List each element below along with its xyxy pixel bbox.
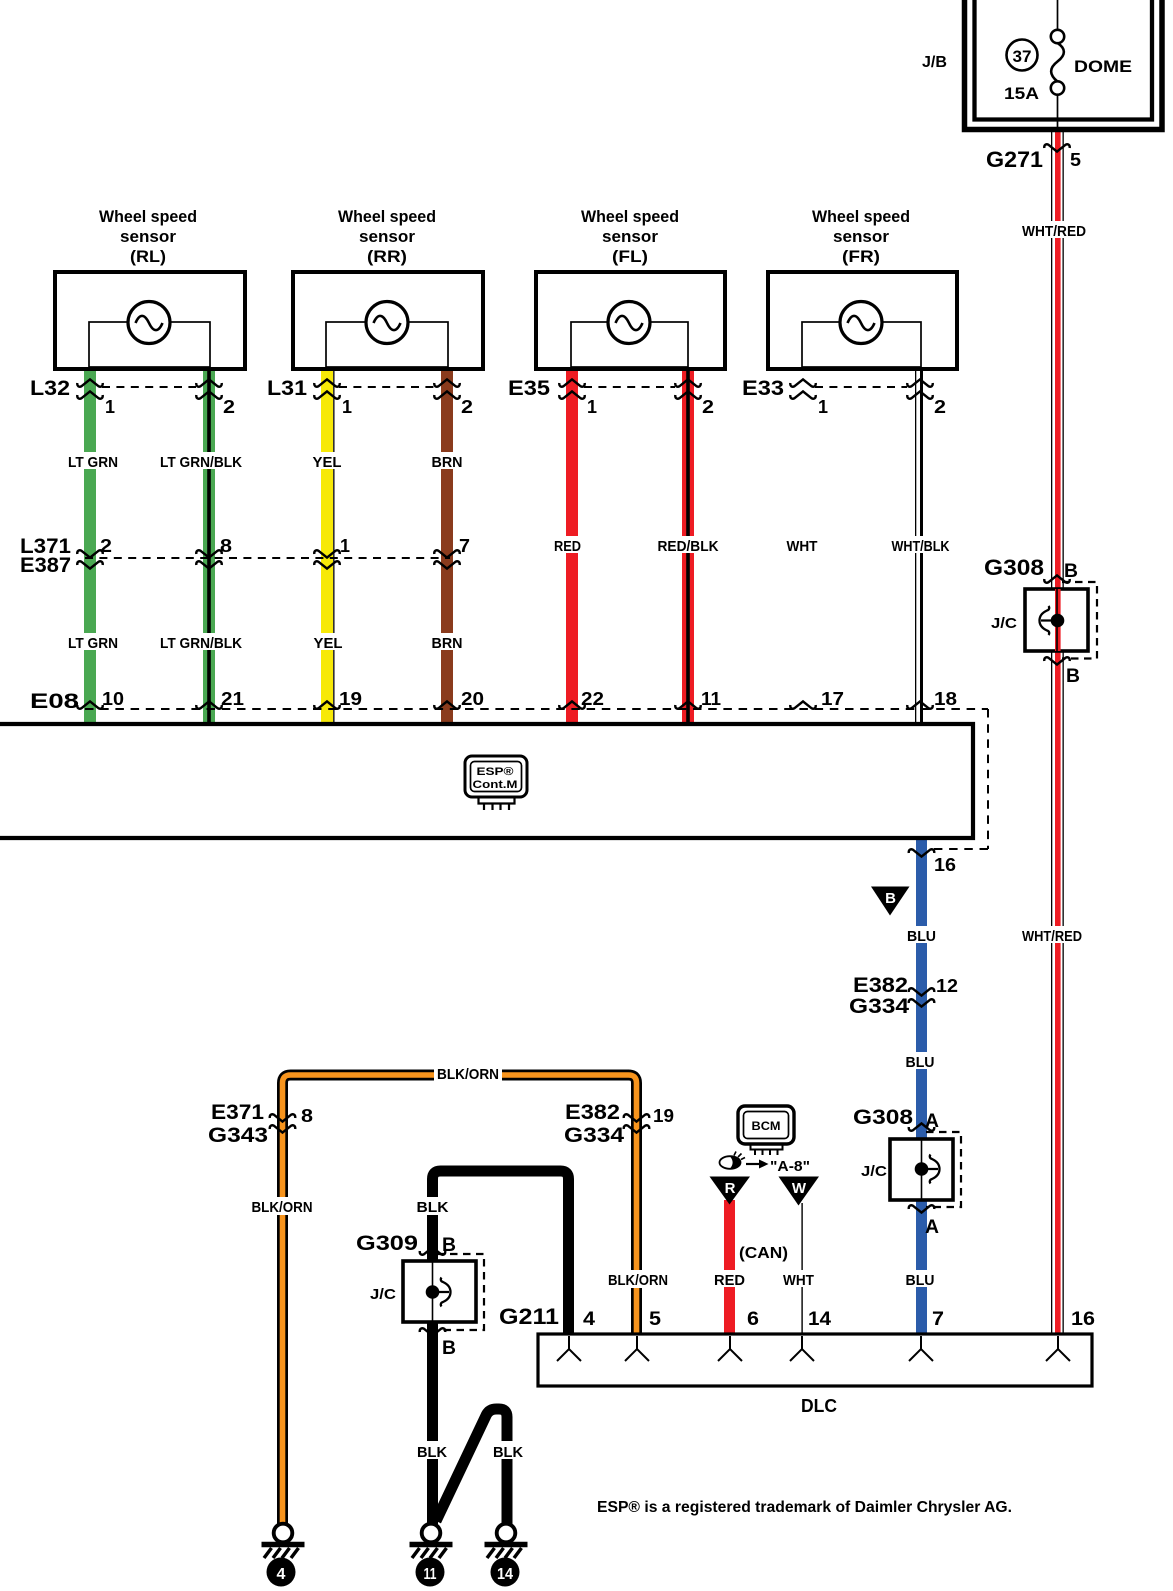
wire label WHT/RED (lower) [1021,926,1087,945]
svg-text:8: 8 [301,1106,313,1126]
wire LT GRN/BLK (RL pin2) [203,368,215,724]
ESP control module box [0,724,973,838]
connector L31 [267,377,473,417]
svg-text:BCM: BCM [752,1119,781,1133]
junction G308 A label [853,1106,939,1132]
svg-text:YEL: YEL [314,635,343,652]
svg-text:Wheel speed: Wheel speed [581,207,679,226]
svg-text:sensor: sensor [602,227,658,246]
ground 14 [485,1524,528,1587]
wire BLK from G309 to grounds and DLC pin4 [433,1171,569,1525]
svg-text:WHT/RED: WHT/RED [1022,223,1086,240]
svg-text:Cont.M: Cont.M [473,779,518,791]
wire label LT GRN/BLK (lower) [158,633,244,652]
svg-text:G334: G334 [564,1124,624,1147]
wire label LT GRN/BLK (upper) [158,452,244,471]
svg-text:R: R [725,1180,736,1197]
wire label WHT/BLK (mid) [890,536,952,555]
wheel speed sensor (RL) [55,207,245,369]
svg-text:BLU: BLU [906,1054,935,1071]
wire label RED (CAN) [712,1270,748,1289]
svg-text:20: 20 [461,689,484,709]
svg-text:1: 1 [587,397,597,417]
wire label BLU (mid) [903,1052,937,1071]
svg-text:J/C: J/C [991,615,1017,632]
triangle marker B [871,887,910,916]
svg-text:B: B [885,890,896,907]
svg-text:ESP® is a registered trademark: ESP® is a registered trademark of Daimle… [597,1499,1012,1516]
wire label BLK (upper) [414,1197,452,1216]
wire BRN (RR pin2) [441,368,453,724]
wheel speed sensor (FL) [536,207,725,369]
svg-text:E382: E382 [853,974,908,997]
wire label BLK/ORN (right) [606,1270,672,1289]
DLC pin 5 fork [625,1336,649,1361]
svg-text:BLU: BLU [906,1272,935,1289]
svg-text:YEL: YEL [313,454,342,471]
svg-text:(FL): (FL) [612,247,648,266]
wire label YEL (upper) [310,452,344,471]
J/B junction block box [922,0,1162,130]
svg-text:G271: G271 [986,147,1043,172]
svg-text:G211: G211 [499,1304,559,1329]
svg-text:2: 2 [100,536,112,556]
svg-text:BRN: BRN [432,454,463,471]
junction G308 B label [984,555,1078,582]
wire WHT from W triangle to DLC pin14 [801,1203,802,1334]
svg-text:G334: G334 [849,995,909,1018]
svg-text:2: 2 [702,397,714,417]
svg-text:1: 1 [105,397,115,417]
svg-text:LT GRN/BLK: LT GRN/BLK [160,454,242,471]
J/C junction G309 [370,1247,484,1359]
svg-text:G308: G308 [984,555,1044,580]
svg-text:8: 8 [220,536,232,556]
connector L371/E387 row [20,535,470,577]
svg-text:L32: L32 [30,377,70,400]
connector E35 [508,377,714,417]
connector E382/G334 on BLU [849,974,958,1018]
svg-text:LT GRN/BLK: LT GRN/BLK [160,635,242,652]
svg-text:B: B [1066,666,1080,687]
svg-text:"A-8": "A-8" [770,1158,810,1175]
wire BLU from ESP pin16 to DLC pin7 [916,838,927,1334]
svg-text:(RL): (RL) [130,247,166,266]
wire label BRN (upper) [430,452,464,471]
svg-text:14: 14 [497,1566,513,1583]
svg-text:BLK/ORN: BLK/ORN [252,1199,313,1216]
svg-text:1: 1 [342,397,352,417]
svg-text:E387: E387 [20,554,71,577]
J/C junction G308 A [861,1123,961,1238]
svg-text:17: 17 [821,689,844,709]
svg-text:J/B: J/B [922,54,947,71]
wire label WHT (CAN) [781,1270,817,1289]
fuse 37 15A DOME [1004,0,1132,129]
svg-text:sensor: sensor [120,227,176,246]
wire label BLK (ground 14) [490,1441,526,1461]
svg-text:10: 10 [102,689,124,709]
svg-text:11: 11 [424,1566,437,1583]
svg-text:6: 6 [747,1309,759,1330]
svg-text:L31: L31 [267,377,307,400]
svg-text:J/C: J/C [370,1286,396,1303]
connector E371/G343 [208,1101,313,1147]
DLC pin 6 fork [718,1336,742,1361]
svg-text:(CAN): (CAN) [739,1245,788,1262]
wire RED (FL pin1) [566,368,578,724]
svg-text:12: 12 [936,976,958,996]
connector E08 row [30,689,988,849]
svg-text:19: 19 [653,1106,674,1126]
wire label BLU (upper) [905,926,939,945]
svg-text:E08: E08 [30,690,79,713]
svg-text:2: 2 [461,397,473,417]
svg-text:2: 2 [223,397,235,417]
svg-text:DOME: DOME [1074,57,1132,76]
svg-text:16: 16 [1071,1309,1095,1330]
wire label BLK/ORN (left) [249,1197,316,1216]
wire WHT/RED from J/B to DLC pin16 [1051,131,1064,1334]
svg-text:E382: E382 [565,1101,620,1124]
DLC pin 14 fork [790,1336,814,1361]
svg-text:LT GRN: LT GRN [68,635,118,652]
DLC connector box [538,1309,1095,1416]
svg-text:WHT/BLK: WHT/BLK [892,538,950,555]
wire label LT GRN (lower) [66,633,120,652]
connector G271 [986,144,1081,172]
wire label BLU (lower) [903,1270,937,1289]
svg-text:BLK: BLK [417,1444,447,1461]
svg-text:5: 5 [649,1309,661,1330]
connector E33 [742,377,946,417]
svg-text:BRN: BRN [432,635,463,652]
svg-text:A: A [925,1217,939,1238]
svg-text:4: 4 [277,1566,286,1583]
svg-text:(RR): (RR) [367,247,407,266]
svg-text:LT GRN: LT GRN [68,454,118,471]
wire LT GRN (RL pin1) [84,368,96,724]
eye icon [720,1152,746,1169]
svg-text:BLK/ORN: BLK/ORN [608,1272,668,1289]
wire label RED (mid) [553,536,583,555]
svg-text:(FR): (FR) [842,247,880,266]
svg-text:4: 4 [583,1309,595,1330]
svg-text:7: 7 [932,1309,944,1330]
svg-text:18: 18 [934,689,957,709]
svg-text:19: 19 [339,689,362,709]
connector L32 [30,377,235,417]
svg-text:15A: 15A [1004,84,1039,103]
svg-text:22: 22 [581,689,604,709]
wheel speed sensor (FR) [768,207,957,369]
junction G309 label [356,1232,456,1256]
wire RED/BLK (FL pin2) [682,368,694,724]
wire label RED/BLK (mid) [656,536,721,555]
svg-text:sensor: sensor [833,227,889,246]
svg-text:WHT/RED: WHT/RED [1022,928,1082,945]
wire WHT/BLK (FR pin2) [915,368,923,724]
svg-text:1: 1 [340,536,350,556]
wire BLK/ORN ground branch [283,1075,637,1525]
wire RED (CAN) from R triangle to DLC pin6 [724,1200,735,1334]
svg-text:2: 2 [934,397,946,417]
svg-text:G309: G309 [356,1232,418,1255]
J/C junction G308 B [991,575,1097,687]
svg-text:Wheel speed: Wheel speed [99,207,197,226]
wire label YEL (lower) [310,633,344,652]
svg-text:RED/BLK: RED/BLK [658,538,719,555]
svg-text:G343: G343 [208,1124,268,1147]
ESP pin 16 [909,849,956,875]
BCM module icon [738,1106,794,1155]
svg-text:B: B [442,1338,456,1359]
svg-text:5: 5 [1070,150,1081,170]
svg-text:BLK: BLK [417,1199,449,1216]
svg-text:16: 16 [934,855,956,875]
svg-text:J/C: J/C [861,1163,887,1180]
wire label BRN (lower) [430,633,464,652]
ground 4 [262,1524,305,1587]
svg-text:B: B [1064,561,1078,582]
svg-text:W: W [792,1180,807,1197]
DLC pin 7 fork [909,1336,933,1361]
wheel speed sensor (RR) [293,207,483,369]
svg-text:WHT: WHT [787,538,818,555]
svg-text:G308: G308 [853,1106,913,1129]
svg-text:BLK: BLK [493,1444,523,1461]
DLC pin 4 fork [557,1336,581,1361]
svg-text:DLC: DLC [801,1396,837,1416]
svg-text:Wheel speed: Wheel speed [338,207,436,226]
triangle marker W [779,1177,820,1206]
svg-text:WHT: WHT [783,1272,814,1289]
wire label BLK (ground 11) [414,1441,450,1461]
svg-text:RED: RED [714,1272,745,1289]
ESP Cont.M icon [465,756,527,810]
wire label BLK/ORN (top) [434,1063,502,1083]
wire YEL (RR pin1) [321,368,335,724]
wire label LT GRN (upper) [66,452,120,471]
svg-text:BLK/ORN: BLK/ORN [437,1066,499,1083]
svg-text:ESP®: ESP® [477,766,514,778]
svg-text:Wheel speed: Wheel speed [812,207,910,226]
ground 11 [410,1524,453,1587]
svg-text:11: 11 [701,689,721,709]
svg-text:21: 21 [221,689,244,709]
svg-text:E33: E33 [742,377,784,400]
wire label WHT/RED (upper) [1018,221,1090,240]
svg-text:7: 7 [459,536,470,556]
svg-text:37: 37 [1013,47,1032,66]
svg-text:E35: E35 [508,377,550,400]
svg-text:sensor: sensor [359,227,415,246]
svg-text:E371: E371 [211,1101,264,1124]
connector E382/G334 (right) [564,1101,674,1147]
triangle marker R [710,1177,751,1205]
svg-text:BLU: BLU [907,928,936,945]
wire label WHT (mid) [785,536,820,555]
svg-text:1: 1 [818,397,828,417]
arrow to A-8 [746,1160,769,1169]
svg-text:14: 14 [808,1309,831,1330]
svg-text:RED: RED [554,538,581,555]
DLC pin 16 fork [1046,1336,1070,1361]
